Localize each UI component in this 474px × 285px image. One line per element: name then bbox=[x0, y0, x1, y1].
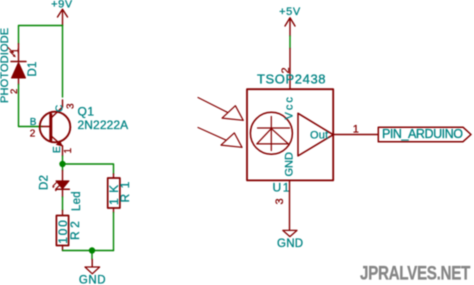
transistor Q1 bbox=[30, 100, 77, 156]
power flag +5V bbox=[279, 6, 301, 36]
resistor R2 bbox=[56, 211, 70, 251]
svg-text:2: 2 bbox=[30, 128, 36, 139]
wire top-left from +9V to photodiode bbox=[19, 26, 63, 44]
svg-text:GND: GND bbox=[79, 275, 106, 285]
junction emitter node bbox=[59, 161, 65, 167]
svg-text:Led: Led bbox=[71, 191, 83, 211]
global label PIN_ARDUINO bbox=[378, 127, 471, 142]
pin 3 of U1 bbox=[289, 181, 291, 231]
led light arrow b bbox=[56, 186, 60, 190]
internal photodiode bbox=[257, 117, 290, 151]
svg-text:PIN_ARDUINO: PIN_ARDUINO bbox=[382, 127, 463, 141]
svg-text:E: E bbox=[52, 146, 63, 153]
svg-text:2N2222A: 2N2222A bbox=[78, 118, 129, 132]
svg-text:1: 1 bbox=[11, 48, 22, 53]
svg-text:R2: R2 bbox=[68, 218, 82, 240]
svg-text:3: 3 bbox=[65, 103, 76, 109]
IC body U1 bbox=[247, 89, 333, 180]
photodiode D1 bbox=[8, 44, 26, 94]
wire R1 down bbox=[113, 213, 115, 251]
wire emitter to junction bbox=[62, 156, 64, 164]
led D2 bbox=[52, 171, 69, 198]
IR ray arrow top bbox=[198, 98, 243, 121]
power flag +9V bbox=[51, 0, 73, 26]
svg-text:3: 3 bbox=[274, 198, 286, 204]
wire collector drop bbox=[62, 26, 64, 98]
svg-text:1: 1 bbox=[353, 123, 359, 135]
wire anode to base bbox=[19, 85, 43, 127]
svg-text:Out: Out bbox=[310, 130, 328, 142]
svg-text:+5V: +5V bbox=[279, 6, 301, 18]
svg-text:JPRALVES.NET: JPRALVES.NET bbox=[360, 264, 471, 285]
junction ground node bbox=[89, 247, 95, 253]
photodiode light arrow b bbox=[10, 52, 15, 57]
detector circle of U1 bbox=[250, 112, 292, 154]
pin 1 of U1 / wire to label bbox=[333, 134, 378, 136]
wire +5V to pin 2 bbox=[289, 36, 291, 49]
bottom wire bbox=[63, 250, 114, 252]
resistor R1 bbox=[107, 174, 121, 213]
svg-text:D2: D2 bbox=[39, 175, 51, 190]
svg-text:C: C bbox=[54, 105, 65, 112]
svg-text:D1: D1 bbox=[27, 61, 39, 76]
svg-text:R1: R1 bbox=[118, 176, 132, 202]
svg-text:U1: U1 bbox=[273, 181, 292, 195]
amplifier triangle bbox=[298, 113, 333, 156]
wire junction down to LED bbox=[62, 164, 64, 171]
IR ray arrow bottom bbox=[198, 128, 242, 148]
wire LED to R2 bbox=[62, 197, 64, 211]
pin 2 of U1 bbox=[289, 49, 291, 90]
svg-text:Q1: Q1 bbox=[78, 105, 95, 119]
ground left bbox=[79, 260, 106, 285]
ground right bbox=[277, 230, 303, 250]
svg-text:GND: GND bbox=[284, 152, 296, 177]
svg-text:Vcc: Vcc bbox=[284, 95, 296, 119]
photodiode light arrow a bbox=[8, 48, 13, 53]
svg-text:TSOP2438: TSOP2438 bbox=[257, 72, 326, 87]
led light arrow a bbox=[53, 183, 57, 187]
wire junction to R1 bbox=[63, 164, 114, 174]
wire to GND bbox=[91, 251, 93, 260]
svg-text:GND: GND bbox=[277, 238, 303, 250]
svg-text:B: B bbox=[30, 117, 37, 128]
svg-text:1: 1 bbox=[63, 148, 74, 154]
